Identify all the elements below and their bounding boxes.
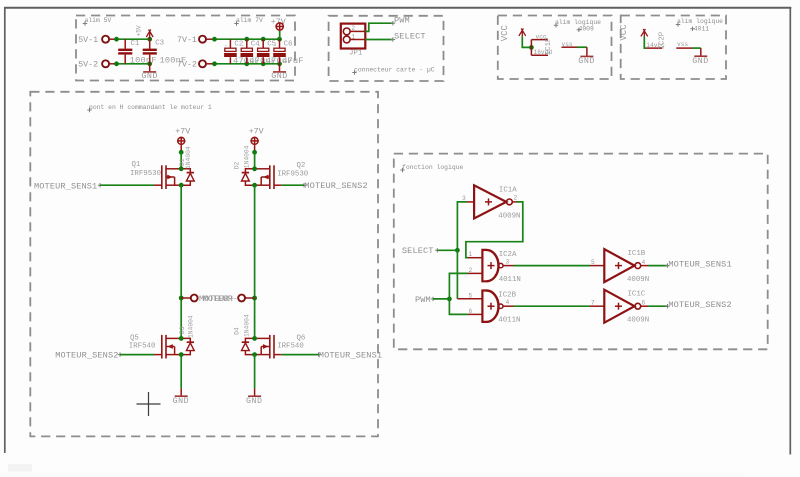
pin 4 IC2B output — [503, 299, 514, 306]
wire VCC to IC2P — [644, 37, 646, 48]
wire net PWM from JP1 pin2 — [365, 23, 393, 31]
svg-text:MOTEUR_SENS1: MOTEUR_SENS1 — [34, 181, 97, 191]
pin 7V-1 — [177, 36, 215, 45]
junction — [244, 61, 249, 66]
node SELECT label — [391, 32, 426, 42]
junction — [252, 336, 257, 341]
svg-text:4011: 4011 — [694, 25, 710, 32]
wire net SELECT from JP1 pin1 — [365, 39, 393, 41]
svg-text:4009N: 4009N — [498, 212, 520, 220]
pin vss IC1P — [562, 41, 578, 48]
junction — [179, 352, 184, 357]
capacitor C5 polarized — [257, 39, 293, 66]
svg-text:IC1A: IC1A — [499, 186, 517, 194]
svg-text:4: 4 — [642, 259, 646, 266]
svg-text:4011N: 4011N — [499, 276, 521, 284]
svg-text:IRF540: IRF540 — [129, 343, 156, 351]
svg-text:2: 2 — [514, 195, 518, 202]
svg-text:GND: GND — [692, 57, 709, 66]
capacitor C6 polarized — [273, 39, 303, 66]
svg-text:1N4004: 1N4004 — [243, 314, 250, 337]
node SELECT label — [402, 246, 440, 256]
svg-text:MOTEUR_SENS2: MOTEUR_SENS2 — [55, 351, 118, 361]
svg-text:1N4004: 1N4004 — [185, 146, 192, 169]
junction — [244, 37, 249, 42]
svg-text:GND: GND — [271, 72, 288, 81]
pin MOTEUR- — [203, 295, 255, 304]
junction — [179, 150, 184, 155]
wire SELECT — [438, 249, 458, 251]
supply +7V left — [175, 128, 190, 153]
supply VCC arrow — [641, 29, 648, 37]
wire net GND bottom 5V — [117, 63, 150, 65]
svg-text:GND: GND — [141, 72, 158, 81]
wire pin3 IC1A from SELECT — [457, 202, 467, 250]
svg-text:IRF9530: IRF9530 — [277, 171, 308, 179]
svg-text:7V-1: 7V-1 — [177, 36, 197, 45]
diode D2 1N4004 — [234, 145, 255, 185]
ground GND left — [173, 388, 190, 406]
svg-text:alim 5V: alim 5V — [85, 17, 112, 24]
junction — [179, 166, 184, 171]
diode D4 1N4004 — [234, 314, 255, 354]
svg-text:MOTEUR_SENS1: MOTEUR_SENS1 — [319, 351, 382, 361]
diode D1 1N4004 — [179, 146, 194, 185]
svg-text:VCC: VCC — [500, 24, 510, 41]
wire right leg mid — [254, 185, 256, 338]
svg-text:-: - — [241, 42, 245, 49]
svg-text:4009: 4009 — [579, 25, 595, 32]
svg-text:Q6: Q6 — [297, 335, 306, 343]
svg-text:100nF: 100nF — [130, 56, 157, 66]
ground GND 4011 — [692, 48, 709, 66]
wire Q6 to GND — [254, 355, 256, 389]
svg-text:SELECT: SELECT — [402, 246, 434, 256]
supply VCC arrow — [519, 28, 526, 36]
transistor Q2 IRF9530 — [255, 162, 309, 189]
transistor Q1 IRF9530 — [130, 161, 181, 189]
svg-text:-: - — [273, 42, 277, 49]
svg-text:6: 6 — [642, 299, 646, 306]
frame box alim logique 4009 — [498, 16, 612, 80]
wire MOTEUR_SENS1 to Q1 gate — [100, 184, 154, 186]
pin 2 IC2A — [468, 267, 482, 274]
svg-text:alim logique: alim logique — [677, 18, 723, 25]
wire net 7V top — [215, 38, 280, 40]
junction — [261, 61, 266, 66]
pin 7 IC1C — [590, 300, 604, 307]
svg-text:2: 2 — [351, 25, 355, 32]
svg-text:3: 3 — [462, 195, 466, 202]
svg-text:IC1P: IC1P — [545, 37, 553, 55]
svg-text:GND: GND — [578, 57, 595, 66]
junction — [212, 61, 217, 66]
junction — [179, 296, 184, 301]
svg-text:5V-2: 5V-2 — [78, 61, 98, 70]
svg-text:3: 3 — [506, 259, 510, 266]
origin cross mark — [137, 392, 161, 416]
inverter IC1C 4009N — [604, 290, 649, 325]
supply +7V right — [249, 128, 264, 153]
svg-text:Q2: Q2 — [297, 162, 306, 170]
pin vss IC2P — [676, 41, 692, 48]
node PWM label — [391, 15, 410, 25]
capacitor C3 — [143, 39, 187, 65]
wire VCC to IC1P — [522, 36, 531, 47]
wire PWM — [433, 298, 449, 300]
svg-text:1N4004: 1N4004 — [187, 315, 194, 338]
node MOTEUR_SENS1 label — [665, 260, 731, 270]
svg-text:1: 1 — [351, 33, 355, 40]
junction — [252, 166, 257, 171]
junction — [252, 183, 257, 188]
inverter IC1A 4009N — [474, 185, 520, 220]
junction — [252, 296, 257, 301]
junction — [277, 61, 282, 66]
junction — [114, 61, 119, 66]
junction — [147, 61, 152, 66]
svg-text:IRF540: IRF540 — [277, 343, 304, 351]
capacitor C1 — [118, 39, 156, 65]
svg-text:JP1: JP1 — [349, 50, 363, 58]
svg-text:47uF: 47uF — [282, 56, 303, 66]
wire IC1C out to MOTEUR_SENS2 — [648, 305, 668, 307]
supply +7V alim7 — [271, 18, 286, 39]
svg-text:1N4004: 1N4004 — [243, 145, 250, 168]
capacitor C4 polarized — [241, 39, 277, 66]
junction — [212, 37, 217, 42]
frame box alim logique 4011 — [621, 16, 726, 80]
svg-text:C1: C1 — [131, 40, 140, 48]
svg-text:PWM: PWM — [415, 295, 431, 305]
transistor Q5 IRF540 — [129, 335, 181, 359]
pin 5 IC2B — [457, 292, 482, 299]
svg-text:D4: D4 — [234, 327, 241, 335]
node PWM label — [415, 295, 435, 305]
wire vss to GND — [577, 46, 587, 48]
pin 1 IC2A — [468, 251, 482, 258]
pin 3 IC1A — [462, 195, 474, 202]
junction — [114, 37, 119, 42]
wire IC2B out to IC1C — [514, 305, 591, 307]
pin 3 IC2A output — [503, 259, 514, 266]
wire +7V to Q1 — [180, 152, 182, 169]
svg-text:VCC: VCC — [619, 24, 629, 41]
svg-text:MOTEUR-: MOTEUR- — [203, 295, 238, 304]
junction — [252, 352, 257, 357]
frame box pont en H — [30, 92, 378, 437]
svg-text:D3: D3 — [179, 326, 186, 334]
svg-text:PWM: PWM — [394, 15, 410, 25]
transistor Q6 IRF540 — [255, 335, 306, 359]
svg-text:connecteur carte - µC: connecteur carte - µC — [354, 67, 435, 74]
wire Q2 gate to MOTEUR_SENS2 — [282, 184, 304, 186]
svg-text:pont en H commandant le moteur: pont en H commandant le moteur 1 — [89, 104, 212, 111]
pin 5 IC1B — [590, 259, 604, 266]
wire PWM to IC2B pin6 — [449, 299, 468, 315]
svg-text:Q5: Q5 — [130, 335, 139, 343]
svg-text:MOTEUR_SENS1: MOTEUR_SENS1 — [668, 260, 731, 270]
ground GND alim7 — [271, 64, 288, 81]
svg-text:5V-1: 5V-1 — [78, 36, 98, 45]
svg-text:MOTEUR_SENS2: MOTEUR_SENS2 — [668, 300, 731, 310]
connector JP1 — [341, 24, 366, 58]
pin 7V-2 — [177, 60, 215, 69]
node MOTEUR_SENS2 label — [665, 300, 731, 310]
wire MOTEUR_SENS2 to Q5 gate — [120, 354, 154, 356]
svg-text:Q1: Q1 — [132, 161, 141, 169]
svg-text:IRF9530: IRF9530 — [130, 170, 161, 178]
pin 6 IC1C output — [641, 299, 648, 306]
pin MOTEUR+ — [181, 295, 234, 304]
svg-text:GND: GND — [246, 397, 263, 406]
svg-text:C6: C6 — [284, 41, 293, 49]
capacitor C2 polarized — [224, 39, 260, 66]
pin 5V-2 — [78, 60, 116, 69]
ground GND alim5 — [141, 64, 158, 81]
junction — [179, 336, 184, 341]
wire PWM to IC2A pin2 — [449, 273, 468, 299]
frame box alim 5V / alim 7V — [76, 16, 295, 81]
svg-text:fonction logique: fonction logique — [402, 164, 464, 171]
svg-text:4009N: 4009N — [627, 276, 649, 284]
svg-text:+7V: +7V — [175, 128, 190, 137]
svg-text:-: - — [224, 42, 228, 49]
inverter IC1B 4009N — [604, 249, 649, 284]
junction — [529, 45, 534, 50]
power symbol IC1P — [531, 34, 552, 57]
svg-text:alim 7V: alim 7V — [236, 17, 263, 24]
wire SELECT to IC2B pin5 — [456, 250, 458, 298]
svg-text:vss: vss — [677, 41, 688, 48]
wire left leg mid — [180, 185, 182, 338]
svg-text:IC1C: IC1C — [628, 291, 646, 299]
junction — [252, 150, 257, 155]
svg-text:IC1B: IC1B — [628, 250, 646, 258]
nand IC2B 4011N — [482, 291, 520, 325]
svg-text:D2: D2 — [234, 162, 241, 170]
svg-text:C3: C3 — [155, 40, 164, 48]
nand IC2A 4011N — [482, 250, 520, 284]
svg-text:7V-2: 7V-2 — [177, 61, 197, 70]
wire IC1B out to MOTEUR_SENS1 — [648, 265, 668, 267]
pin 2 IC1A — [512, 195, 517, 202]
junction SELECT — [455, 248, 460, 253]
svg-text:GND: GND — [173, 397, 190, 406]
wire net 5V top — [117, 38, 150, 40]
svg-text:4: 4 — [506, 299, 510, 306]
pin 5V-1 — [78, 36, 116, 45]
wire IC2A out to IC1B — [514, 265, 591, 267]
wire +7V to Q2 — [254, 152, 256, 169]
junction PWM — [447, 297, 452, 302]
power symbol IC2P — [646, 31, 667, 49]
wire Q6 gate to MOTEUR_SENS1 — [282, 354, 319, 356]
wire IC1A out to IC2A pin1 — [466, 202, 523, 258]
wire Q5 to GND — [180, 355, 182, 389]
diode D3 1N4004 — [179, 315, 194, 354]
svg-text:4011N: 4011N — [498, 317, 520, 325]
svg-text:SELECT: SELECT — [394, 32, 426, 42]
ground GND right — [246, 388, 263, 406]
ground GND 4009 — [578, 47, 595, 66]
svg-text:MOTEUR_SENS2: MOTEUR_SENS2 — [304, 181, 367, 191]
wire vss to GND — [692, 47, 701, 49]
svg-text:-: - — [257, 42, 261, 49]
junction — [147, 37, 152, 42]
junction — [261, 37, 266, 42]
supply +5V arrow — [136, 25, 154, 39]
svg-text:4009N: 4009N — [627, 317, 649, 325]
frame box connecteur carte — [329, 16, 444, 81]
svg-text:+7V: +7V — [249, 128, 264, 137]
junction — [179, 183, 184, 188]
wire net GND bottom 7V — [215, 63, 280, 65]
svg-text:+5V: +5V — [136, 25, 143, 36]
pin 6 IC2B — [468, 308, 482, 315]
frame box fonction logique — [394, 154, 768, 350]
junction — [277, 37, 282, 42]
svg-text:IC2P: IC2P — [659, 31, 667, 49]
pin 4 IC1B output — [641, 259, 648, 266]
